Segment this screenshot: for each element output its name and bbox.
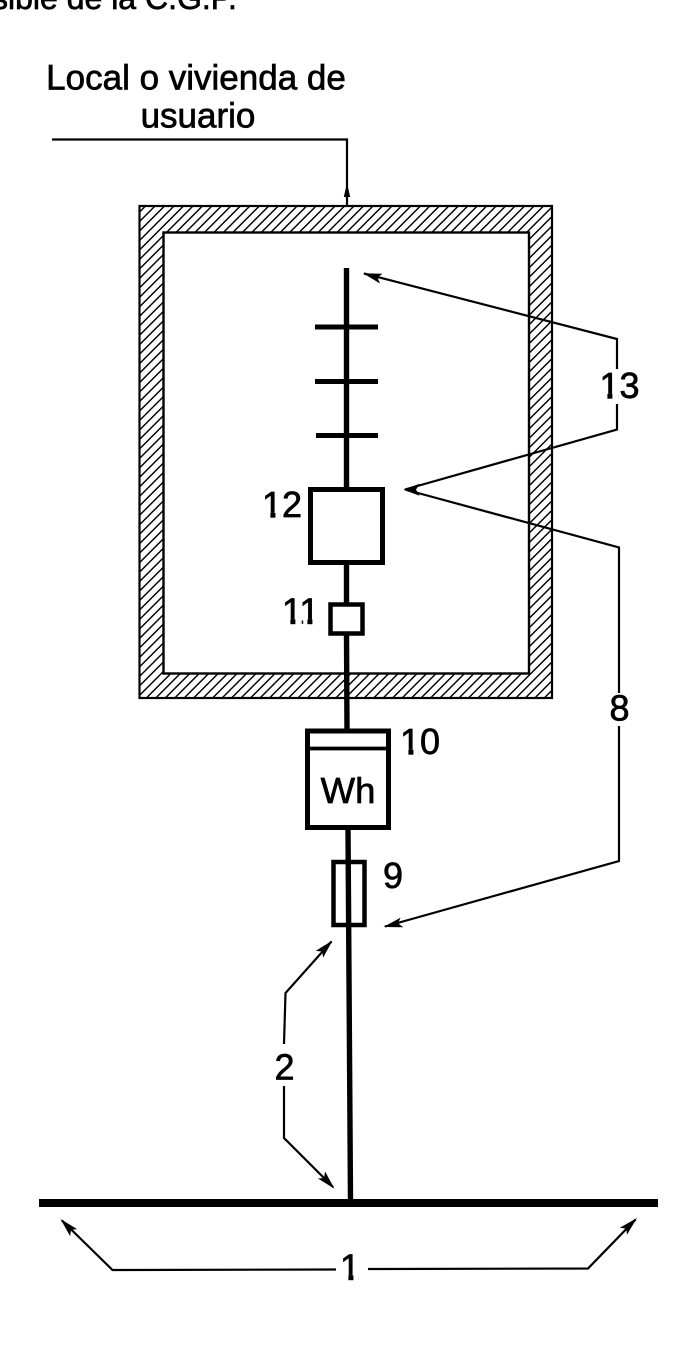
box 10: energy meter Wh xyxy=(306,731,390,828)
digit-1 foot masks (match Arial-style 1 of the scan) xyxy=(263,394,618,1282)
arrowhead at wire top xyxy=(362,269,383,283)
wall enclosure (hatched) xyxy=(140,206,553,698)
leader 8 lower arm to wire below fuse xyxy=(385,726,619,927)
svg-text:Local o vivienda de: Local o vivienda de xyxy=(46,59,346,98)
svg-text:2: 2 xyxy=(274,1047,294,1088)
up arrowhead on dwelling leader xyxy=(344,183,350,197)
arrowhead at box 12 xyxy=(404,484,420,496)
branch tick 1 xyxy=(315,325,378,330)
leader 8 upper arm from box 12 arrow xyxy=(405,490,619,694)
leader 13 upper arm to wire top xyxy=(364,274,617,370)
svg-text:usuario: usuario xyxy=(141,97,256,136)
leader 1 right arm xyxy=(368,1220,636,1270)
leader 1 left arm xyxy=(62,1221,336,1271)
box 11: ICP xyxy=(331,605,363,634)
arrowhead at wire below fuse xyxy=(382,918,403,933)
svg-text:8: 8 xyxy=(609,688,629,729)
leader 2 upper arm to wire xyxy=(284,942,332,1045)
arrowhead 2 upper xyxy=(316,937,336,958)
leader line from label to dwelling xyxy=(52,140,347,206)
branch tick 3 xyxy=(316,433,378,438)
leader 2 lower arm to junction xyxy=(284,1086,333,1187)
svg-text:Wh: Wh xyxy=(321,770,376,811)
branch tick 2 xyxy=(315,379,378,384)
arrowhead 2 lower xyxy=(318,1171,339,1192)
wire: interior installation riser xyxy=(344,268,349,489)
box 12: general control and protection panel xyxy=(311,490,383,563)
svg-text:sible de la C.G.P.: sible de la C.G.P. xyxy=(0,0,237,16)
leader 13 lower arm to box 12 xyxy=(405,404,617,490)
arrowhead 1 left xyxy=(57,1216,78,1236)
node: distribution network (thick line 1) xyxy=(39,1199,658,1207)
wire: meter to fuse and down to network xyxy=(348,828,351,1201)
arrowhead 1 right xyxy=(620,1214,640,1235)
svg-text:9: 9 xyxy=(383,855,403,896)
wire: box 11 through wall to meter xyxy=(344,634,350,730)
wire: box 12 to box 11 xyxy=(344,563,349,604)
box 9: fuse (CGP) xyxy=(334,862,365,925)
